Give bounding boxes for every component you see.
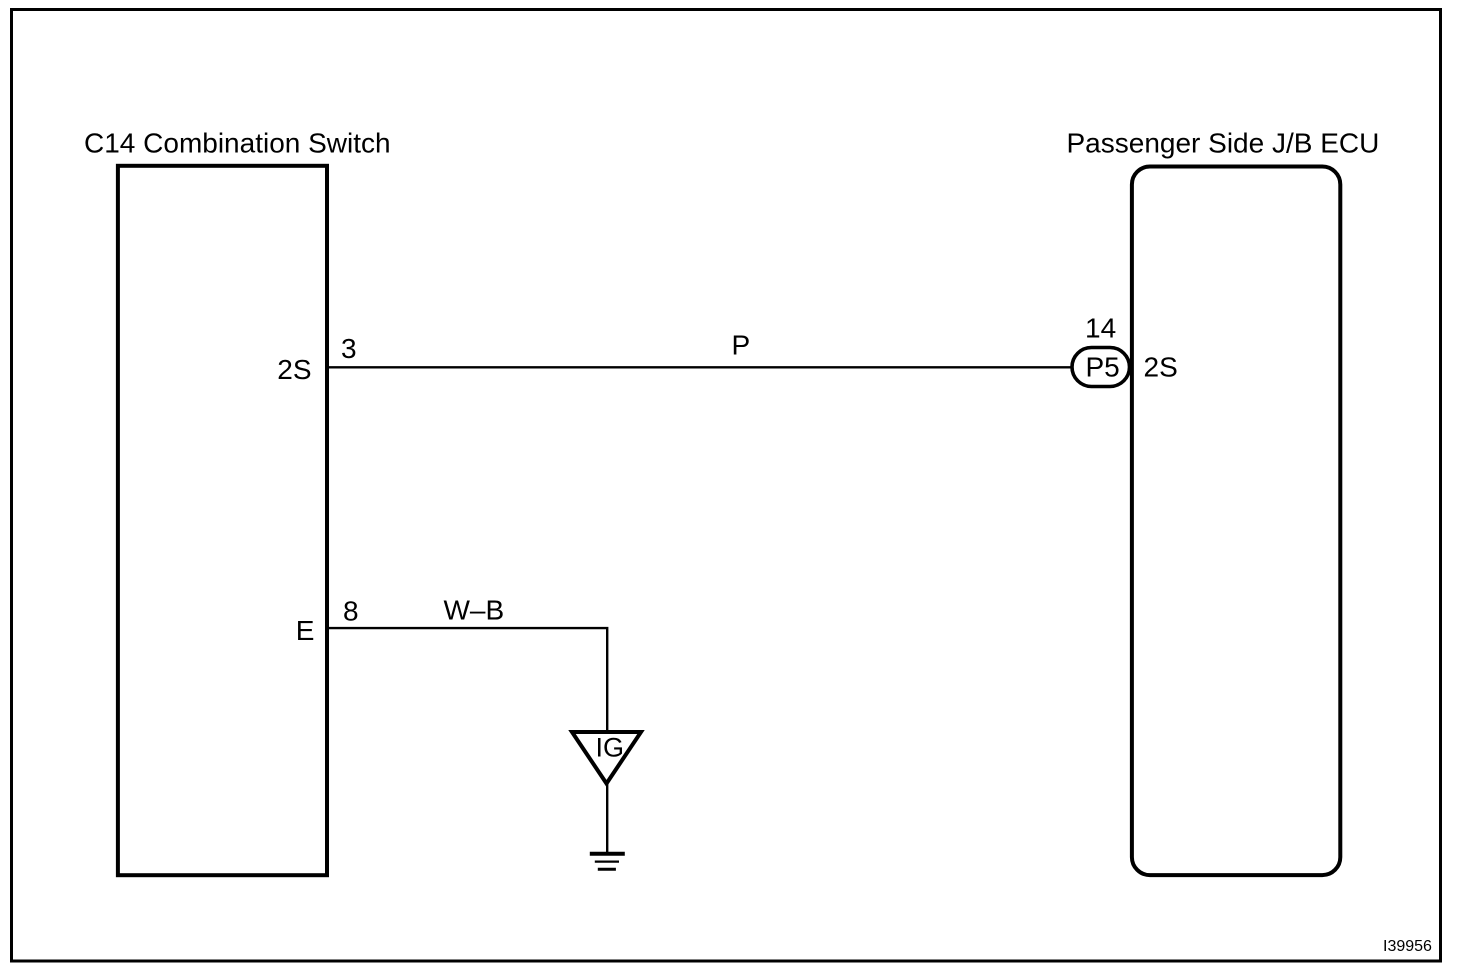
svg-text:P: P [732, 330, 751, 361]
ground symbol (three bars) [590, 854, 625, 870]
svg-text:8: 8 [343, 595, 359, 626]
svg-text:C14 Combination Switch: C14 Combination Switch [84, 128, 391, 159]
svg-text:IG: IG [596, 732, 625, 762]
wire from IG triangle to ground [606, 784, 608, 853]
svg-text:W–B: W–B [444, 595, 505, 626]
connector P5 oval [1072, 348, 1130, 387]
svg-text:Passenger Side J/B ECU: Passenger Side J/B ECU [1067, 128, 1380, 159]
wire P from combination switch pin 3 to P5 [327, 366, 1072, 368]
svg-text:2S: 2S [1144, 352, 1178, 383]
svg-text:2S: 2S [277, 354, 311, 385]
svg-text:14: 14 [1085, 312, 1116, 343]
wire W-B from pin 8 to IG ground symbol [327, 628, 607, 731]
svg-text:I39956: I39956 [1383, 938, 1432, 955]
component box: Passenger Side J/B ECU [1132, 167, 1340, 876]
svg-text:P5: P5 [1086, 352, 1120, 383]
svg-text:E: E [296, 615, 315, 646]
svg-text:3: 3 [341, 333, 357, 364]
component box: C14 Combination Switch [118, 166, 327, 875]
ground symbol IG triangle [572, 732, 641, 784]
